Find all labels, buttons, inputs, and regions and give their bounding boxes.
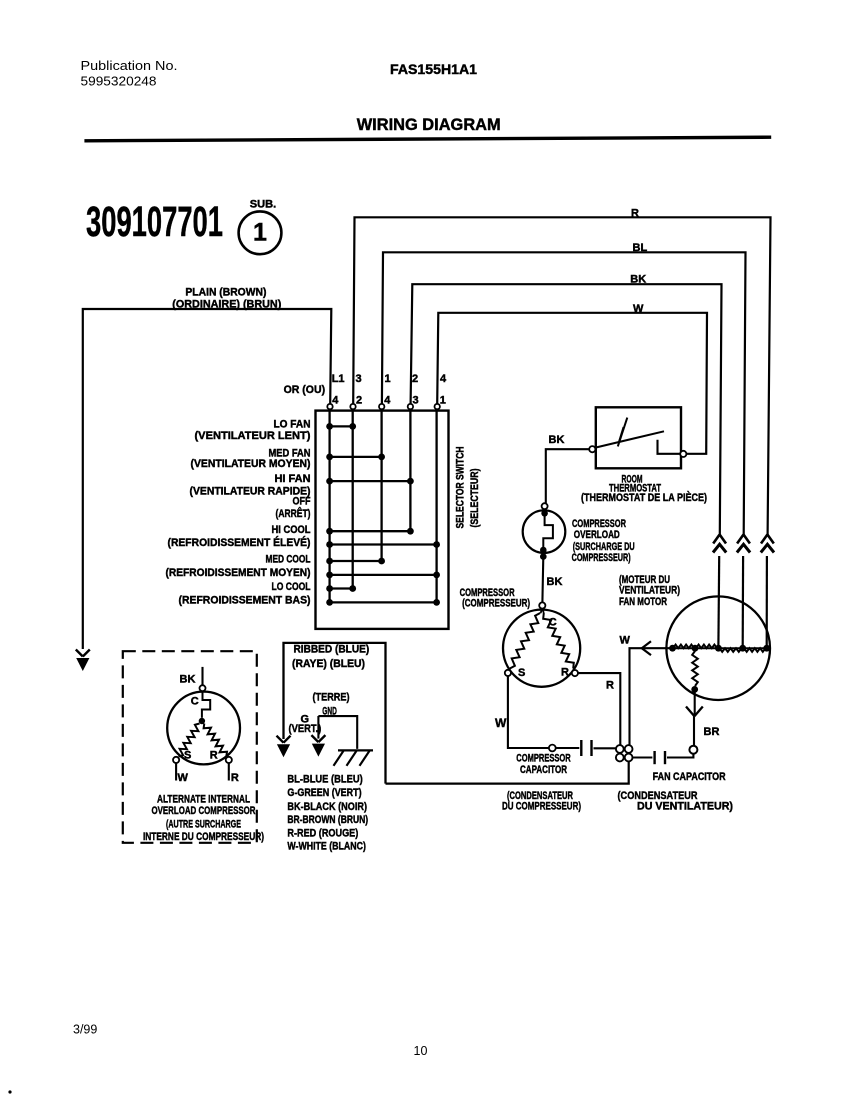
svg-text:R: R xyxy=(606,680,614,692)
svg-text:COMPRESSOR: COMPRESSOR xyxy=(516,753,571,765)
selector terminal labels top row xyxy=(332,373,447,385)
svg-text:FAN MOTOR: FAN MOTOR xyxy=(619,596,667,608)
svg-text:HI COOL: HI COOL xyxy=(272,524,311,536)
selector internal wires xyxy=(330,409,437,602)
svg-text:(VENTILATEUR MOYEN): (VENTILATEUR MOYEN) xyxy=(191,458,311,470)
svg-text:BK: BK xyxy=(180,674,196,686)
selector contact: LO COOL fan row xyxy=(326,585,356,592)
wire: BK bus (selector 3 to fan motor) xyxy=(411,274,722,645)
svg-text:S: S xyxy=(184,750,191,762)
svg-text:INTERNE DU COMPRESSEUR): INTERNE DU COMPRESSEUR) xyxy=(143,831,264,843)
wire: green ground run to cluster xyxy=(386,762,629,784)
svg-text:BK: BK xyxy=(547,576,563,588)
label: ground G/GND xyxy=(289,692,350,736)
wire: green ground lead xyxy=(317,716,319,739)
svg-text:DU VENTILATEUR): DU VENTILATEUR) xyxy=(637,801,733,813)
svg-text:R: R xyxy=(231,772,239,784)
compressor motor M1 xyxy=(503,602,580,686)
selector contact: HI COOL fan row xyxy=(326,528,414,535)
arrow: green wire end xyxy=(311,735,325,742)
wire: brown from line cord to selector terminal L1 xyxy=(83,309,331,649)
svg-text:(AUTRE SURCHARGE: (AUTRE SURCHARGE xyxy=(166,819,241,831)
wire: BK alternate compressor lead xyxy=(180,667,203,686)
thermostat switch blade xyxy=(595,418,680,454)
svg-text:C: C xyxy=(191,696,199,708)
wire color legend xyxy=(287,774,368,853)
svg-text:(REFROIDISSEMENT MOYEN): (REFROIDISSEMENT MOYEN) xyxy=(166,567,311,579)
svg-text:1: 1 xyxy=(385,373,391,385)
selector contact: MED FAN row xyxy=(326,454,385,461)
svg-text:BR: BR xyxy=(704,726,720,738)
wire: W bus (selector 1 to thermostat) xyxy=(437,303,707,454)
svg-text:OVERLOAD COMPRESSOR: OVERLOAD COMPRESSOR xyxy=(152,805,256,817)
line cord jacket (ribbed blue) xyxy=(284,643,386,784)
wire: BK thermostat to overload xyxy=(546,434,589,503)
svg-text:BL-BLUE (BLEU): BL-BLUE (BLEU) xyxy=(287,774,363,786)
svg-text:R: R xyxy=(561,667,569,679)
alternate compressor dashed box xyxy=(123,651,257,843)
arrow: blue cord end xyxy=(277,736,291,743)
svg-text:(REFROIDISSEMENT BAS): (REFROIDISSEMENT BAS) xyxy=(179,595,311,607)
svg-text:(THERMOSTAT DE LA PIÈCE): (THERMOSTAT DE LA PIÈCE) xyxy=(581,491,707,504)
ground symbol xyxy=(334,750,374,765)
svg-text:W: W xyxy=(620,635,631,647)
svg-text:RIBBED (BLUE): RIBBED (BLUE) xyxy=(294,644,370,656)
svg-text:LO FAN: LO FAN xyxy=(274,419,311,431)
svg-text:10: 10 xyxy=(414,1044,428,1058)
svg-text:5995320248: 5995320248 xyxy=(81,75,157,89)
wire: to chassis ground xyxy=(318,716,357,749)
selector contact: LO COOL comp row xyxy=(326,599,440,606)
svg-text:3/99: 3/99 xyxy=(73,1023,97,1037)
svg-text:(VERT.): (VERT.) xyxy=(289,723,322,735)
wire: BL bus (selector 4 to fan motor) xyxy=(382,242,746,645)
svg-text:(ARRÊT): (ARRÊT) xyxy=(276,507,311,520)
selector contact: MED COOL fan row xyxy=(326,558,385,565)
svg-text:OFF: OFF xyxy=(293,496,311,508)
svg-text:L1: L1 xyxy=(332,373,345,385)
svg-text:ALTERNATE INTERNAL: ALTERNATE INTERNAL xyxy=(157,794,250,806)
svg-text:R: R xyxy=(210,750,218,762)
svg-text:BR-BROWN (BRUN): BR-BROWN (BRUN) xyxy=(287,814,368,826)
svg-text:(TERRE): (TERRE) xyxy=(313,692,350,704)
svg-text:OVERLOAD: OVERLOAD xyxy=(574,529,620,541)
arrow: brown line cord end xyxy=(76,650,90,657)
wire: W fan motor lead with arrow xyxy=(620,635,671,745)
compressor capacitor C1 xyxy=(549,740,616,756)
svg-text:(REFROIDISSEMENT ÉLEVÉ): (REFROIDISSEMENT ÉLEVÉ) xyxy=(168,536,311,549)
compressor overload OL1 xyxy=(523,503,566,560)
wire: BR fan motor to fan capacitor (with arrow) xyxy=(686,689,719,745)
alternate compressor motor M3 with internal overload xyxy=(167,685,240,764)
selector contact: LO FAN row xyxy=(326,423,356,430)
connector: R wire xyxy=(761,535,774,544)
selector position labels xyxy=(166,419,311,607)
selector contact: MED COOL comp row xyxy=(326,572,440,579)
speck xyxy=(8,1090,11,1093)
svg-text:FAN CAPACITOR: FAN CAPACITOR xyxy=(653,771,726,783)
svg-text:SUB.: SUB. xyxy=(250,199,276,211)
svg-text:W-WHITE (BLANC): W-WHITE (BLANC) xyxy=(287,840,366,852)
label: fan capacitor xyxy=(618,771,734,813)
svg-text:3: 3 xyxy=(356,373,362,385)
svg-text:OR (OU): OR (OU) xyxy=(284,384,326,396)
label: alternate internal overload compressor xyxy=(143,794,264,843)
fan motor M2 xyxy=(666,596,770,700)
svg-text:4: 4 xyxy=(384,395,391,407)
selector switch U1 box xyxy=(316,411,449,629)
svg-text:CAPACITOR: CAPACITOR xyxy=(520,764,567,776)
svg-text:G-GREEN (VERT): G-GREEN (VERT) xyxy=(287,787,361,799)
svg-text:HI FAN: HI FAN xyxy=(275,473,311,485)
svg-text:W: W xyxy=(178,772,189,784)
svg-text:FAS155H1A1: FAS155H1A1 xyxy=(390,61,477,77)
svg-text:2: 2 xyxy=(356,395,362,407)
room thermostat box xyxy=(596,407,681,468)
svg-text:4: 4 xyxy=(440,373,447,385)
label: compressor xyxy=(460,587,531,610)
svg-text:(COMPRESSEUR): (COMPRESSEUR) xyxy=(462,598,530,610)
connector: BL wire xyxy=(737,535,750,544)
terminal cluster (capacitor terminals) xyxy=(616,745,633,761)
fan capacitor C2 xyxy=(633,751,694,764)
wire: W compressor S to capacitor xyxy=(495,676,549,748)
fan capacitor terminal xyxy=(689,746,697,754)
sub revision circle xyxy=(239,199,282,255)
wire: R bus (selector 2 to fan motor) xyxy=(353,207,770,645)
svg-text:BK: BK xyxy=(549,434,565,446)
svg-text:PLAIN (BROWN): PLAIN (BROWN) xyxy=(185,287,266,299)
svg-text:S: S xyxy=(518,667,525,679)
svg-text:(RAYE) (BLEU): (RAYE) (BLEU) xyxy=(292,658,365,670)
svg-text:DU COMPRESSEUR): DU COMPRESSEUR) xyxy=(502,801,581,813)
svg-text:BK-BLACK (NOIR): BK-BLACK (NOIR) xyxy=(287,801,367,813)
wire: W lead of alternate compressor xyxy=(176,763,188,784)
svg-text:(VENTILATEUR LENT): (VENTILATEUR LENT) xyxy=(195,430,311,442)
svg-text:LO COOL: LO COOL xyxy=(272,581,311,593)
svg-text:MED COOL: MED COOL xyxy=(266,554,311,566)
header: publication number xyxy=(81,59,178,89)
selector switch terminals xyxy=(327,404,440,409)
selector contact: HI COOL comp row xyxy=(326,541,440,548)
svg-text:W: W xyxy=(495,716,507,730)
svg-text:1: 1 xyxy=(440,395,446,407)
label: compressor capacitor xyxy=(502,753,581,813)
label: fan motor xyxy=(619,574,680,608)
svg-text:(SELECTEUR): (SELECTEUR) xyxy=(469,468,481,527)
connector: BK wire xyxy=(713,535,726,544)
svg-text:2: 2 xyxy=(412,373,418,385)
svg-text:SELECTOR SWITCH: SELECTOR SWITCH xyxy=(455,446,467,528)
thermostat right terminal xyxy=(680,451,686,457)
svg-text:4: 4 xyxy=(332,395,339,407)
thermostat left terminal xyxy=(589,446,595,452)
svg-text:COMPRESSEUR): COMPRESSEUR) xyxy=(572,552,631,564)
svg-text:309107701: 309107701 xyxy=(86,199,223,246)
svg-text:Publication No.: Publication No. xyxy=(81,59,178,73)
wire: R lead of alternate compressor xyxy=(229,763,239,784)
svg-text:R-RED (ROUGE): R-RED (ROUGE) xyxy=(287,827,358,839)
svg-text:WIRING DIAGRAM: WIRING DIAGRAM xyxy=(357,116,501,134)
selector terminal labels bottom row xyxy=(332,395,446,407)
title rule xyxy=(84,137,771,141)
wire: R compressor to terminal cluster xyxy=(578,673,620,745)
svg-text:1: 1 xyxy=(253,219,267,247)
label: room thermostat xyxy=(581,474,707,505)
label: compressor overload xyxy=(572,518,635,564)
wire: BK overload to compressor xyxy=(542,557,562,603)
selector contact: HI FAN row xyxy=(326,478,414,485)
svg-text:VENTILATEUR): VENTILATEUR) xyxy=(619,585,680,597)
wire: plain brown supply (label) xyxy=(172,287,281,311)
label: selector switch name (rotated) xyxy=(455,446,482,528)
